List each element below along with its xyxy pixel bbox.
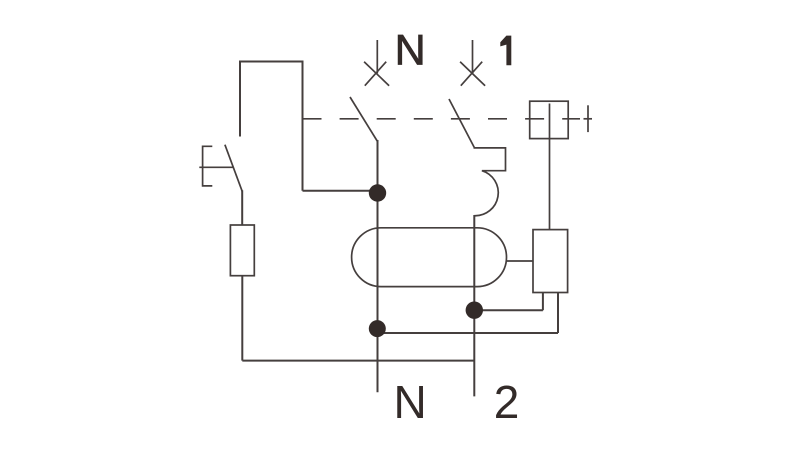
test switch blade S3 <box>225 145 242 192</box>
linkage end tick <box>587 105 589 132</box>
overcurrent release (thermal-magnetic) on pole 1 <box>474 148 506 216</box>
node J3: relay tap on N conductor <box>369 320 386 337</box>
wire: test switch to resistor <box>241 190 243 225</box>
terminal N cross mark <box>364 62 389 86</box>
resistor R1 (test resistor) <box>230 225 254 276</box>
switch blade, pole 1 <box>449 99 474 148</box>
svg-text:N: N <box>395 27 426 75</box>
node J1: test circuit joins N conductor <box>369 184 386 201</box>
wire: N conductor vertical <box>377 140 379 392</box>
wire: relay bottom to node J2 on conductor 2 <box>474 293 543 311</box>
wire: test-circuit right vertical <box>302 61 304 191</box>
wire: relay top vertical through test box <box>549 104 551 230</box>
toroidal current transformer W1 <box>352 228 507 287</box>
node J2: relay tap on conductor 2 <box>466 302 483 319</box>
mechanical linkage (dashed) <box>303 118 581 120</box>
svg-text:2: 2 <box>494 376 520 428</box>
wire: test-circuit horizontal to node J1 on N conductor <box>303 190 378 192</box>
label: terminal 1 (top) <box>500 36 511 66</box>
wire: resistor down <box>241 276 243 361</box>
svg-text:N: N <box>393 376 426 428</box>
wire: conductor 2 vertical <box>473 215 475 396</box>
linkage end dash <box>584 118 593 120</box>
wire: test-circuit bottom horizontal to conductor 2 <box>242 360 474 362</box>
terminal 1 input stub <box>472 40 474 73</box>
wire: test-circuit top horizontal <box>239 61 303 63</box>
wire: relay bottom to node J3 on N conductor <box>377 293 558 334</box>
wire: test-circuit left vertical (fixed contact of test switch) <box>239 62 241 137</box>
test button actuator bracket <box>203 146 213 186</box>
wire: toroid secondary to trip relay <box>506 260 534 262</box>
test button actuator link <box>199 166 234 168</box>
trip relay K1 (residual current release) <box>533 230 568 293</box>
terminal N input stub <box>376 40 378 73</box>
terminal 1 cross mark <box>460 62 485 86</box>
switch blade, pole N <box>350 97 377 141</box>
test box T <box>530 101 569 138</box>
